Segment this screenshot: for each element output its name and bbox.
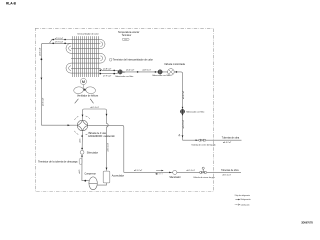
svg-text:ø9.5 CuT: ø9.5 CuT [90,107,99,109]
svg-text:ø4.8 CuT: ø4.8 CuT [142,69,151,71]
svg-text:Silenciador con filtro: Silenciador con filtro [115,75,134,78]
left U-bends [66,43,71,53]
discharge muffler [80,150,84,154]
crossover jump on suction line [107,124,109,171]
liquid stop valve [199,139,206,141]
wire: to compressor [82,180,89,182]
svg-text:RLA-B: RLA-B [6,2,17,6]
svg-text:Termistor: Termistor [122,34,132,37]
svg-text:Válvula motorizada: Válvula motorizada [164,63,185,66]
svg-text:Flujo de refrigerante: Flujo de refrigerante [235,194,250,197]
svg-text:ø7.9 CuT: ø7.9 CuT [55,42,64,44]
svg-text:3D067078: 3D067078 [301,222,313,225]
svg-text:Termistor del intercambiador d: Termistor del intercambiador de calor [113,59,153,62]
svg-text:ø9.5 CuT: ø9.5 CuT [40,47,42,56]
joints on inlet branches [41,39,71,126]
svg-text:Silenciador: Silenciador [87,151,99,154]
svg-text:Calefacción: Calefacción [241,204,250,206]
svg-text:ø9.5 CuT: ø9.5 CuT [134,170,143,172]
svg-text:Silenciador: Silenciador [169,176,181,179]
flow arrow right [196,139,198,141]
svg-text:ø6.4 CuT: ø6.4 CuT [183,90,185,99]
heat exchanger tubes [66,40,105,74]
svg-text:Compresor: Compresor [85,173,97,176]
wire: muffler1 to motorized valve [122,71,167,73]
svg-text:Válvula de 4 vías: Válvula de 4 vías [88,133,106,135]
gas line [124,171,241,173]
gas muffler [173,170,177,174]
svg-text:Silenciador con filtro: Silenciador con filtro [152,74,171,77]
muffler with filter 3 [180,107,205,116]
svg-text:ø7.9 CuT: ø7.9 CuT [55,38,64,40]
coil exit lines [100,69,118,74]
svg-text:ø9.5 CuT: ø9.5 CuT [107,142,109,151]
muffler with filter 2 [152,70,171,77]
wire: 4-way top loop [83,109,107,124]
wire: accumulator to compressor [97,183,106,185]
accumulator [103,171,110,183]
liquid line [183,139,242,141]
svg-text:Válvula de cierre de líquido: Válvula de cierre de líquido [191,145,216,147]
flow arrow pair [156,170,161,172]
wire: 4-way right to gas drop [88,125,123,172]
muffler with filter 1 [115,70,134,78]
fan motor [80,78,86,84]
svg-text:ø6.4 CuT: ø6.4 CuT [223,142,232,144]
svg-text:Acumulador: Acumulador [112,174,124,177]
propeller [73,86,96,94]
svg-text:Intercambiador de calor: Intercambiador de calor [77,33,98,36]
coil thermistor [109,58,112,61]
svg-text:ø9.5 CuT: ø9.5 CuT [222,175,231,177]
svg-text:Ventilador de hélices: Ventilador de hélices [77,94,99,97]
heat exchanger fins [73,36,99,77]
svg-text:ø9.5 CuT: ø9.5 CuT [186,170,195,172]
svg-text:ø9.5 CuT: ø9.5 CuT [42,97,44,106]
motorized valve U1 [168,69,175,76]
wire: coil inlet left pipe [41,40,76,126]
right U-bends [100,40,105,49]
svg-text:Termistor de la tubería de des: Termistor de la tubería de descarga [38,160,78,163]
unit dashed border [35,28,213,191]
flow arrow on left riser [41,78,43,80]
gas stop valve [200,167,207,173]
wire: 4-way bottom to muffler [81,131,83,150]
compressor [89,177,97,190]
flow arrow down on liquid drop [182,135,184,137]
svg-text:Válvula de cierre de gas: Válvula de cierre de gas [193,177,214,179]
svg-text:ENCENDIDO: calefacción: ENCENDIDO: calefacción [88,136,115,138]
wire: valve to liquid drop [174,72,182,140]
svg-text:Refrigeración: Refrigeración [241,198,251,201]
svg-text:ø7.9 CuT: ø7.9 CuT [103,76,112,78]
svg-text:ø4.8 CuT: ø4.8 CuT [103,68,112,70]
4-way valve [77,120,88,131]
svg-text:Temperatura exterior: Temperatura exterior [118,31,140,34]
svg-text:Tuberías de obra: Tuberías de obra [222,136,240,139]
svg-text:Tuberías de obra: Tuberías de obra [221,169,239,172]
discharge pipe thermistor [81,154,83,181]
svg-text:Silenciador con filtro: Silenciador con filtro [186,111,205,114]
svg-text:ø6.4 CuT: ø6.4 CuT [126,69,135,71]
svg-text:ø6.4 CuT: ø6.4 CuT [183,119,185,128]
fan legs [75,99,79,104]
